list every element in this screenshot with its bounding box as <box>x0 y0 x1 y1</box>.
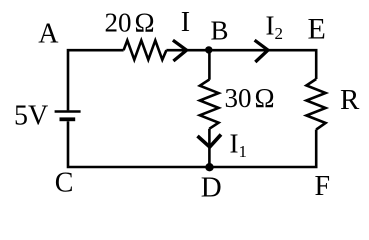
battery 5V long plate (positive) <box>55 110 81 113</box>
svg-text:B: B <box>211 16 229 46</box>
svg-text:30Ω: 30Ω <box>225 83 275 113</box>
svg-text:C: C <box>55 168 74 199</box>
wire: 30ohm resistor down to D <box>208 129 211 167</box>
battery 5V short thick plate (negative) <box>60 117 76 121</box>
node D junction dot <box>205 163 213 171</box>
wire: D to F corner up to R resistor <box>209 130 316 168</box>
resistor 20ohm zigzag between A and B <box>124 40 167 59</box>
svg-text:R: R <box>340 84 360 116</box>
svg-text:I: I <box>181 7 190 38</box>
svg-text:20Ω: 20Ω <box>105 8 155 38</box>
wire: left side A corner (A to battery top) <box>68 50 124 110</box>
svg-text:E: E <box>308 12 326 45</box>
wire: B down to 30ohm resistor <box>208 50 211 80</box>
wire: 20ohm to B to E corner <box>166 50 316 79</box>
current arrow I (right-pointing open arrowhead on top wire) <box>173 40 187 61</box>
svg-text:D: D <box>201 172 222 204</box>
node B junction dot <box>205 46 212 53</box>
svg-text:F: F <box>315 171 331 202</box>
resistor R vertical zigzag between E and F <box>306 79 325 130</box>
svg-text:5V: 5V <box>14 101 48 132</box>
current arrow I1 (down-pointing open arrowhead on 30ohm branch) <box>198 135 222 148</box>
svg-text:A: A <box>38 18 59 49</box>
wire: battery bottom to C corner to D <box>68 121 209 167</box>
resistor 30ohm vertical zigzag between B and D <box>200 80 219 129</box>
current arrow I2 (right-pointing open arrowhead between B and E) <box>255 40 268 62</box>
